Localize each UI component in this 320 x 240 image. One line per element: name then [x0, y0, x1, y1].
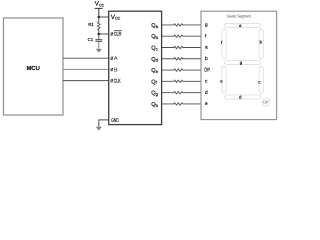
svg-text:C1: C1 — [88, 37, 94, 42]
segment e shape — [222, 66, 226, 94]
wire Qh to display e + resistor R9 — [162, 103, 201, 105]
svg-text:MCU: MCU — [27, 65, 40, 72]
seven segment display U3 box — [201, 11, 277, 119]
pin CLR (active low) — [111, 31, 122, 38]
segment b shape — [259, 29, 263, 60]
segment d shape — [224, 95, 261, 99]
wire MCU to IC pin CLK — [63, 80, 109, 82]
svg-text:Seven Segment: Seven Segment — [227, 14, 252, 19]
svg-text:DP: DP — [263, 100, 269, 105]
segment f shape — [222, 29, 226, 60]
node junction dot (Vcc rail / R1 top / IC VCC pin) — [98, 16, 101, 19]
svg-text:Qd: Qd — [151, 57, 158, 63]
segment c shape — [259, 66, 263, 94]
svg-text:Qe: Qe — [151, 68, 158, 74]
svg-text:CLR: CLR — [114, 32, 122, 38]
wire Qf to display c + resistor R7 — [162, 80, 201, 82]
svg-text:B: B — [114, 67, 118, 73]
capacitor C1 — [88, 34, 103, 42]
MCU U2 block — [4, 18, 64, 115]
svg-text:Qg: Qg — [151, 91, 158, 97]
svg-text:GND: GND — [111, 118, 118, 124]
wire Qd to display b + resistor R5 — [162, 58, 201, 60]
wire Qe to display DP + resistor R6 — [162, 69, 201, 71]
svg-text:Qh: Qh — [151, 102, 158, 108]
wire Qa to display g + resistor R2 — [162, 24, 201, 26]
svg-text:Qb: Qb — [151, 34, 158, 40]
wire MCU to IC pin B — [63, 68, 109, 70]
power symbol Vcc — [95, 1, 105, 18]
wire Qc to display a + resistor R4 — [162, 46, 201, 48]
shift register IC U1 box — [109, 11, 162, 124]
ground (below C1) — [96, 42, 102, 53]
svg-text:e: e — [205, 102, 208, 107]
pin CLK — [111, 78, 121, 84]
wire Qb to display f + resistor R3 — [162, 35, 201, 37]
svg-text:d: d — [205, 90, 208, 96]
wire GND pin to ground — [99, 120, 109, 127]
svg-text:CLK: CLK — [114, 78, 121, 84]
svg-text:a: a — [205, 46, 208, 51]
resistor R1 — [88, 17, 100, 34]
segment a shape — [224, 23, 261, 27]
svg-text:Qa: Qa — [151, 23, 158, 29]
svg-text:Qf: Qf — [151, 79, 157, 85]
wire junction to IC CLR pin — [99, 33, 109, 35]
svg-text:Qc: Qc — [151, 46, 157, 52]
svg-text:A: A — [114, 56, 118, 62]
svg-text:b: b — [205, 56, 208, 62]
svg-text:VCC: VCC — [95, 1, 105, 8]
segment DP shape — [262, 98, 270, 106]
svg-text:DP: DP — [204, 68, 210, 74]
wire Qg to display d + resistor R8 — [162, 91, 201, 93]
ground (below IC GND pin) — [96, 127, 102, 131]
segment g shape — [224, 60, 261, 64]
pin A — [111, 56, 118, 62]
pin B — [111, 67, 118, 73]
svg-text:g: g — [205, 23, 208, 28]
wire MCU to IC pin A — [63, 57, 109, 59]
svg-text:R1: R1 — [88, 22, 94, 27]
node junction dot (R1 bottom / C1 top / IC CLR pin) — [98, 33, 101, 36]
wire Vcc junction to IC VCC pin — [99, 16, 109, 18]
